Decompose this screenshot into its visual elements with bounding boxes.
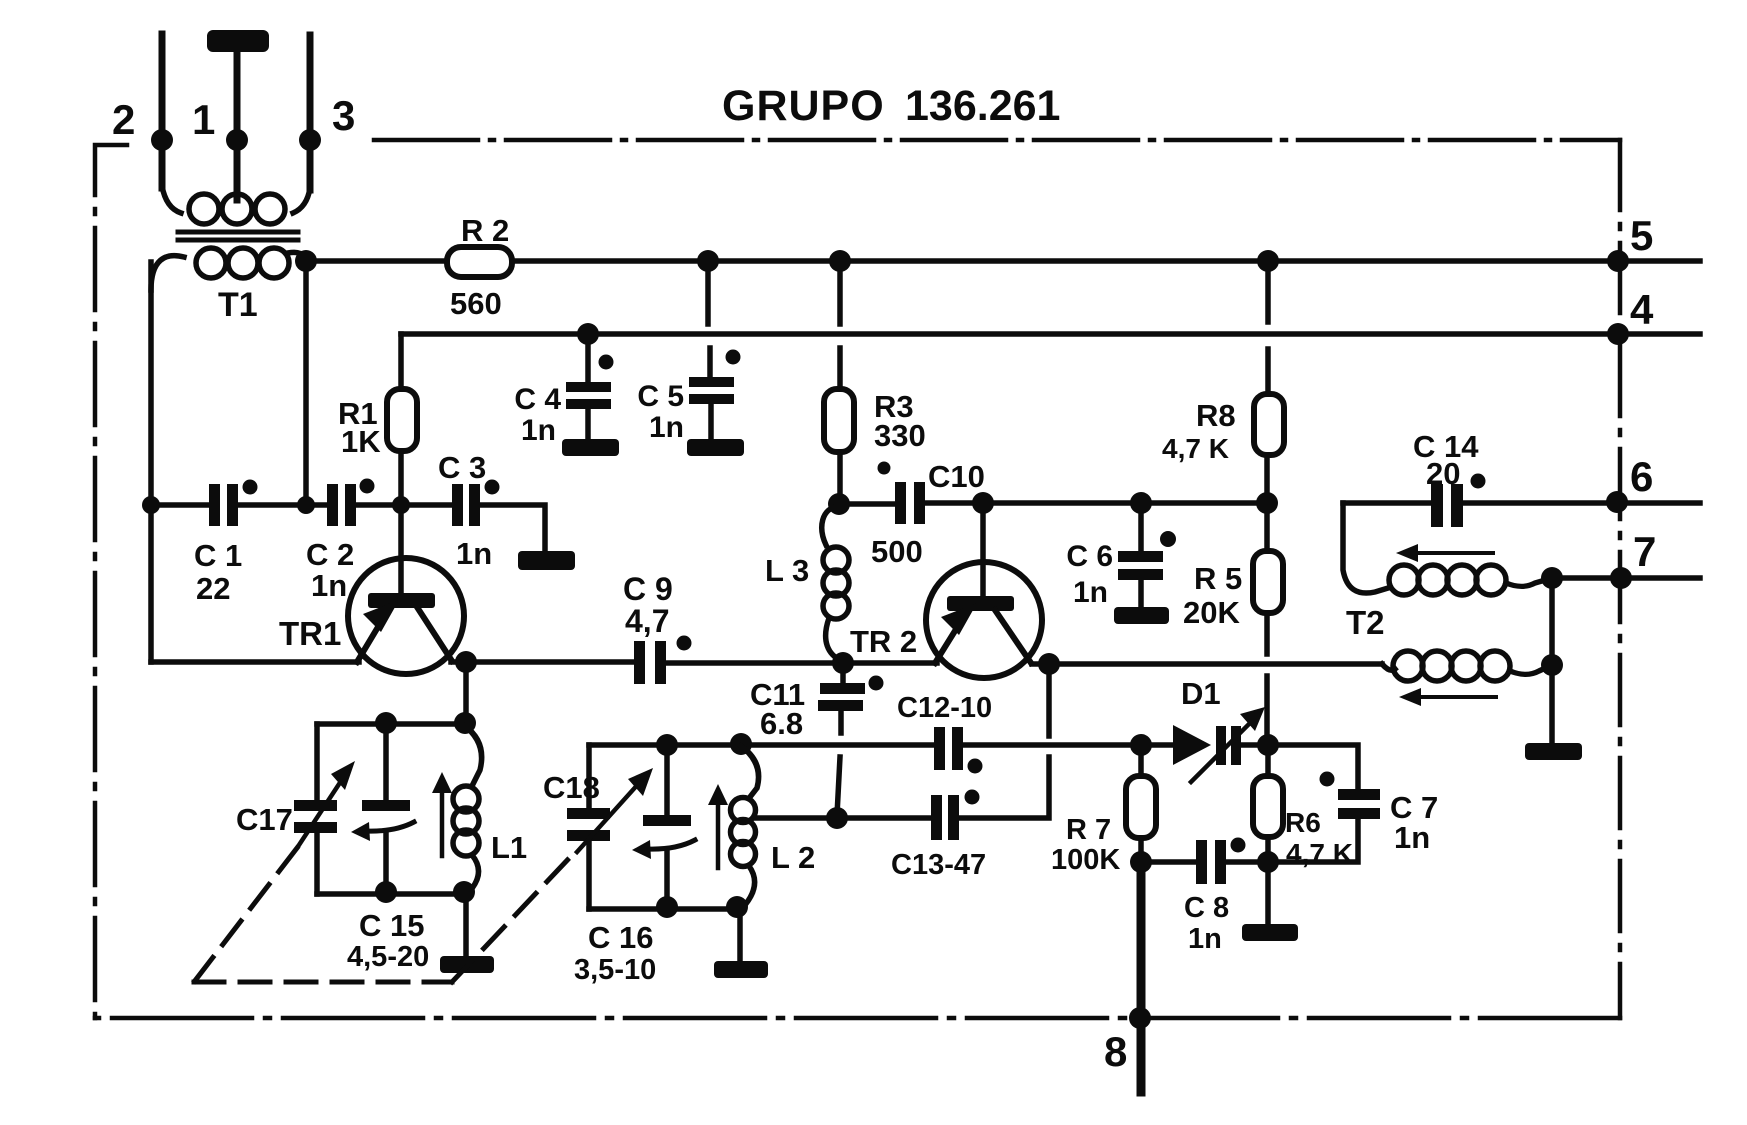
node tank1 top C15 (375, 712, 397, 734)
svg-text:20K: 20K (1183, 595, 1240, 630)
label terminal 3 (332, 92, 355, 139)
label C11 (750, 677, 805, 741)
label terminal 8 (1104, 1028, 1127, 1075)
label L2 (771, 840, 815, 875)
svg-text:L 3: L 3 (765, 553, 809, 588)
node C4 polarity dot (599, 355, 614, 370)
node line505 R1 base (392, 496, 410, 514)
wire gang dashed line (194, 848, 575, 982)
resistor R1 (387, 389, 417, 451)
label C3 (438, 450, 492, 571)
svg-text:R 5: R 5 (1194, 561, 1242, 596)
capacitor C5 (689, 377, 734, 440)
ground C3 (518, 551, 575, 570)
label terminal 5 (1630, 212, 1653, 259)
capacitor C6 (1118, 503, 1163, 608)
svg-text:1n: 1n (1188, 923, 1222, 955)
svg-text:20: 20 (1426, 456, 1460, 491)
ground C5 (687, 439, 744, 456)
svg-text:C17: C17 (236, 802, 293, 837)
label C12 (897, 692, 992, 724)
resistor R6 (1253, 776, 1283, 837)
svg-text:6: 6 (1630, 453, 1653, 500)
node line505 left (142, 496, 160, 514)
wire TR1 emitter to left rail (151, 659, 359, 665)
label C6 (1066, 540, 1113, 609)
label C18 (543, 770, 600, 805)
node C1 polarity dot (243, 480, 258, 495)
node terminal 5 (1607, 250, 1629, 272)
node C8 polarity dot (1231, 838, 1246, 853)
node C10 polarity dot (878, 462, 891, 475)
svg-text:C10: C10 (928, 459, 985, 494)
arrow T2 lower winding (1399, 688, 1496, 706)
node TR2 collector junction (1038, 653, 1060, 675)
svg-text:560: 560 (450, 286, 502, 321)
transistor TR1 (348, 505, 464, 674)
label R1 (338, 396, 381, 459)
label TR2 (850, 624, 917, 659)
capacitor C14 (1431, 484, 1463, 527)
tank 2: wire bottom (589, 906, 740, 912)
ground C6 (1114, 607, 1169, 624)
label R6 (1285, 807, 1353, 869)
node C11 polarity dot (869, 676, 884, 691)
capacitor C18 (variable) (567, 745, 653, 909)
node tank2 top L2 (730, 733, 752, 755)
svg-text:C13-47: C13-47 (891, 849, 986, 881)
wire R3 stub from rail5 (hops rail4) (837, 261, 843, 389)
node transformer/node5 junction (295, 250, 317, 272)
resistor R5 (1253, 551, 1283, 613)
node C6 polarity dot (1160, 531, 1176, 547)
wire line B right to TR2 collector (hops line A) (959, 664, 1049, 818)
node terminal 8 (1129, 1007, 1151, 1029)
ground T2 (1525, 743, 1582, 760)
svg-text:100K: 100K (1051, 844, 1120, 876)
node C11 top junction (832, 652, 854, 674)
inductor L3 (822, 506, 849, 661)
transistor TR2 (926, 503, 1042, 678)
capacitor C9 (634, 641, 666, 684)
node C8 left junction (1130, 851, 1152, 873)
label terminal 1 (192, 96, 215, 143)
svg-text:C 15: C 15 (359, 908, 424, 943)
svg-text:1n: 1n (1073, 576, 1108, 609)
wire R5 bottom lead (hops collector line) (1264, 613, 1270, 745)
capacitor C13 (931, 795, 959, 840)
svg-text:1: 1 (192, 96, 215, 143)
label terminal 7 (1633, 528, 1656, 575)
node C5 polarity dot (726, 350, 741, 365)
wire node 6 line (1463, 500, 1700, 506)
wire collector to tank1 (463, 662, 469, 724)
wire terminal 1 lead (234, 50, 241, 200)
capacitor C4 (566, 334, 611, 440)
label C15 (347, 908, 429, 973)
svg-text:C12-10: C12-10 (897, 692, 992, 724)
wire R3 bottom lead (837, 452, 843, 503)
capacitor C16 (trimmer) (632, 745, 695, 909)
node rail5/R3 stub (829, 250, 851, 272)
node rail5/C5 stub (697, 250, 719, 272)
label C4 (514, 383, 561, 447)
capacitor C12 (934, 727, 963, 770)
label C17 (236, 802, 293, 837)
border frame bottom (95, 1016, 1620, 1021)
node tank1 top L1 (454, 712, 476, 734)
wire R5 top lead (1264, 503, 1270, 551)
svg-text:C 6: C 6 (1066, 540, 1113, 573)
label C14 (1413, 429, 1479, 491)
svg-text:T1: T1 (218, 286, 258, 324)
node T2 upper right junction (1541, 567, 1563, 589)
svg-text:1n: 1n (311, 568, 347, 603)
svg-text:8: 8 (1104, 1028, 1127, 1075)
label C9 (623, 571, 673, 639)
node R8/R5 junction (1256, 492, 1278, 514)
svg-text:R 7: R 7 (1066, 814, 1111, 846)
node tank1 bottom C15 (375, 881, 397, 903)
label T1 (218, 286, 258, 324)
diode D1 (1173, 707, 1265, 782)
resistor R2 (447, 247, 512, 277)
label C2 (306, 537, 354, 603)
resistor R7 (1126, 776, 1156, 838)
wire node 4 rail (401, 331, 1700, 337)
node T2 lower right junction (1541, 654, 1563, 676)
node terminal 7 (1610, 567, 1632, 589)
tank 1: wire bottom (317, 891, 466, 897)
node rail5/R8 stub (1257, 250, 1279, 272)
title GRUPO 136.261 (722, 82, 1060, 130)
node C13 polarity dot (965, 790, 980, 805)
wire node 5 rail (306, 258, 1700, 264)
label TR1 (279, 615, 341, 652)
node terminal 2 (151, 129, 173, 151)
wire C8 line (1141, 859, 1268, 865)
ground tank1 (440, 956, 494, 973)
svg-text:C 2: C 2 (306, 537, 354, 572)
wire C5 stub from rail5 (hops rail4) (708, 261, 710, 377)
wire R1 bottom lead (398, 451, 404, 505)
svg-text:C 8: C 8 (1184, 892, 1229, 924)
label terminal 2 (112, 96, 135, 143)
svg-text:4,7 K: 4,7 K (1162, 433, 1229, 464)
node tank2 bottom L2 (726, 896, 748, 918)
svg-text:C 1: C 1 (194, 538, 242, 573)
node tank1 bottom L1 (453, 881, 475, 903)
label T2 (1346, 604, 1385, 641)
label C7 (1390, 790, 1438, 855)
svg-text:2: 2 (112, 96, 135, 143)
svg-text:1K: 1K (341, 424, 381, 459)
wire C14 left lead (1343, 500, 1431, 506)
svg-text:5: 5 (1630, 212, 1653, 259)
svg-text:1n: 1n (649, 411, 684, 444)
label R7 (1051, 814, 1120, 876)
svg-text:500: 500 (871, 534, 923, 569)
label C1 (194, 538, 242, 606)
wire R7 leads (1138, 745, 1144, 862)
node C6 junction (1130, 492, 1152, 514)
border frame top-left corner (95, 145, 127, 1018)
node R3/L3/C10 junction (828, 493, 850, 515)
node terminal 1 (226, 129, 248, 151)
wire C10 line (839, 503, 1267, 504)
wire terminal 8 line (1137, 862, 1146, 1092)
ground C4 (562, 439, 619, 456)
resistor R3 (824, 389, 854, 452)
label terminal 6 (1630, 453, 1653, 500)
transformer T1 secondary winding (151, 248, 306, 290)
svg-text:4,7: 4,7 (625, 603, 669, 639)
wire terminal 2 lead (159, 34, 166, 188)
transformer T1 core (178, 230, 298, 235)
svg-text:4,5-20: 4,5-20 (347, 941, 429, 973)
svg-text:T2: T2 (1346, 604, 1385, 641)
label C8 (1184, 892, 1229, 955)
node R7 top junction (1130, 734, 1152, 756)
border frame right (1618, 140, 1623, 1018)
tank 1: wire top (317, 721, 466, 727)
svg-text:136.261: 136.261 (905, 82, 1060, 130)
svg-text:C 3: C 3 (438, 450, 486, 485)
svg-text:1n: 1n (456, 536, 492, 571)
svg-text:C 4: C 4 (514, 383, 561, 416)
ground R6/C8/C7 node (1242, 924, 1298, 941)
node line505 x306 (297, 496, 315, 514)
node C9 polarity dot (677, 636, 692, 651)
label R5 (1183, 561, 1242, 630)
svg-text:4: 4 (1630, 286, 1654, 333)
label L1 (491, 830, 527, 865)
node D1 cathode junction (1257, 734, 1279, 756)
capacitor C3 (452, 484, 480, 526)
wire R8 bottom lead (1264, 455, 1270, 503)
wire TR2 collector line to T2 (1032, 661, 1382, 667)
transformer T2 lower winding (1382, 651, 1552, 681)
wire tank1 to ground (463, 894, 469, 957)
svg-text:TR 2: TR 2 (850, 624, 917, 659)
svg-text:1n: 1n (1394, 820, 1430, 855)
wire C1 C2 C3 line (151, 505, 545, 552)
border frame top (374, 138, 1620, 143)
wire line A right segment (963, 742, 1172, 748)
label C10 (871, 459, 985, 569)
wire TR1 collector line to C9 (451, 659, 634, 665)
svg-text:330: 330 (874, 418, 926, 453)
wire secondary left drop x=151 (148, 262, 154, 662)
wire R6 node to ground (1265, 862, 1271, 925)
svg-text:C 16: C 16 (588, 920, 653, 955)
svg-text:6.8: 6.8 (760, 706, 803, 741)
svg-text:7: 7 (1633, 528, 1656, 575)
node C7 polarity dot (1320, 772, 1335, 787)
node tank2 bottom C16 (656, 896, 678, 918)
node C3 polarity dot (485, 480, 500, 495)
node C8 right junction (1257, 851, 1279, 873)
svg-text:L 2: L 2 (771, 840, 815, 875)
capacitor C10 (895, 482, 925, 524)
inductor L1 (432, 726, 482, 891)
wire node 7 line (1552, 575, 1700, 581)
node TR1 collector / tank1 (455, 651, 477, 673)
svg-text:3,5-10: 3,5-10 (574, 954, 656, 986)
capacitor C17 (variable) (294, 724, 355, 894)
svg-text:22: 22 (196, 571, 230, 606)
inductor L2 (708, 746, 759, 905)
svg-text:TR1: TR1 (279, 615, 341, 652)
wire C7 branch (1268, 745, 1358, 862)
capacitor C8 (1196, 840, 1226, 884)
svg-text:3: 3 (332, 92, 355, 139)
label D1 (1181, 676, 1221, 711)
node tank2 top C16 (656, 734, 678, 756)
svg-text:C 9: C 9 (623, 571, 673, 607)
node C14 polarity dot (1471, 474, 1486, 489)
label C16 (574, 920, 656, 986)
transformer T2 upper winding with C14 (1343, 503, 1552, 595)
node terminal 4 (1607, 323, 1629, 345)
node rail4/C4 (577, 323, 599, 345)
capacitor C7 (1338, 789, 1380, 819)
label terminal 4 (1630, 286, 1654, 333)
wire terminal 3 lead (307, 35, 314, 190)
svg-text:C 5: C 5 (637, 380, 684, 413)
wire tank2 to ground (737, 909, 743, 962)
node TR2 base / C10 (972, 492, 994, 514)
label L3 (765, 553, 809, 588)
wire rail4 left corner to R1 (398, 334, 404, 389)
wire T2 right side to ground (1549, 578, 1555, 744)
resistor R8 (1254, 394, 1284, 455)
label C5 (637, 380, 684, 444)
node C12 polarity dot (968, 759, 983, 774)
node terminal 3 (299, 129, 321, 151)
svg-text:R 2: R 2 (461, 213, 509, 248)
capacitor C15 (trimmer) (351, 724, 414, 894)
label R8 (1162, 398, 1236, 464)
wire R6 leads (1265, 745, 1271, 862)
wire secondary right drop x=306 (303, 261, 309, 505)
svg-text:D1: D1 (1181, 676, 1221, 711)
wire C9 to TR2 emitter (666, 660, 937, 666)
label R3 (874, 389, 926, 453)
svg-text:1n: 1n (521, 414, 556, 447)
transformer T1 primary winding (162, 186, 310, 224)
capacitor C2 (327, 484, 356, 526)
svg-text:R8: R8 (1196, 398, 1236, 433)
antenna symbol at terminal 1 (207, 30, 269, 52)
node C2 polarity dot (360, 479, 375, 494)
tank 2: wire top (line A left) (589, 742, 934, 748)
svg-text:L1: L1 (491, 830, 527, 865)
svg-text:R6: R6 (1285, 807, 1321, 838)
label C13 (891, 849, 986, 881)
svg-text:GRUPO: GRUPO (722, 82, 885, 130)
ground tank2 (714, 961, 768, 978)
capacitor C1 (209, 484, 238, 526)
node C11 bottom on line B (826, 807, 848, 829)
wire line B (L2 tap to C13) (756, 815, 931, 821)
svg-text:C18: C18 (543, 770, 600, 805)
wire R8 stub from rail5 (hops rail4) (1265, 261, 1271, 394)
label R2 (450, 213, 509, 321)
capacitor C11 (818, 663, 865, 815)
arrow T2 upper winding (1396, 544, 1493, 562)
node terminal 6 (1606, 491, 1628, 513)
